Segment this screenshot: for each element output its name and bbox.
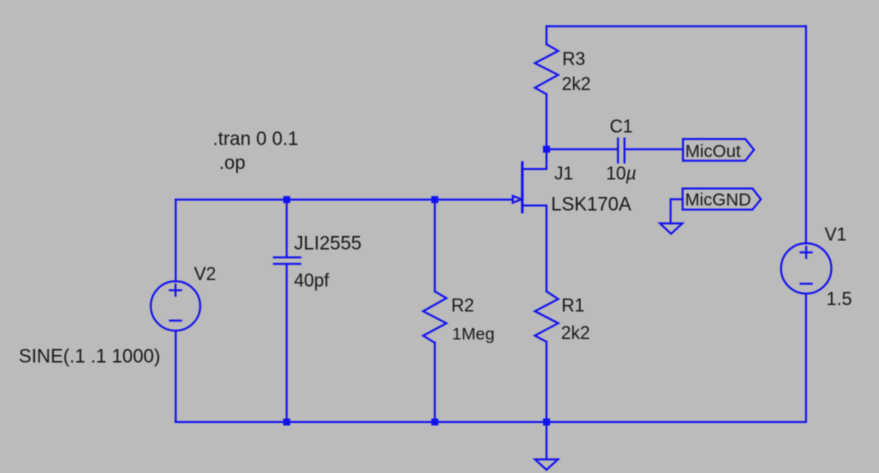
svg-text:MicGND: MicGND bbox=[685, 190, 751, 210]
svg-text:10µ: 10µ bbox=[606, 164, 636, 184]
wire V2 top lead bbox=[175, 200, 177, 282]
junction node gate-R2 bbox=[431, 196, 438, 203]
resistor R2 bbox=[423, 200, 446, 422]
junction node drain bbox=[543, 146, 550, 153]
svg-text:LSK170A: LSK170A bbox=[551, 194, 632, 215]
flag MicGND bbox=[683, 189, 761, 210]
svg-text:MicOut: MicOut bbox=[685, 141, 741, 161]
svg-text:R3: R3 bbox=[562, 49, 585, 69]
svg-text:C1: C1 bbox=[610, 116, 633, 136]
svg-text:J1: J1 bbox=[554, 163, 573, 183]
svg-text:2k2: 2k2 bbox=[561, 323, 590, 343]
junction node bottom-R2 bbox=[431, 419, 438, 426]
capacitor C1 bbox=[547, 139, 684, 163]
resistor R3 bbox=[535, 26, 558, 149]
voltage source V1 bbox=[781, 243, 831, 293]
svg-text:1Meg: 1Meg bbox=[452, 324, 495, 343]
wire MicGND to ground bbox=[671, 199, 683, 223]
junction node bottom-C2 bbox=[283, 419, 290, 426]
ground symbol MicGND bbox=[660, 223, 682, 233]
resistor R1 bbox=[535, 291, 558, 422]
voltage source V2 bbox=[151, 281, 200, 330]
svg-text:R1: R1 bbox=[562, 295, 585, 315]
junction node gate-C2 bbox=[283, 196, 290, 203]
svg-text:.op: .op bbox=[219, 153, 245, 174]
svg-text:SINE(.1 .1 1000): SINE(.1 .1 1000) bbox=[19, 347, 161, 368]
svg-text:R2: R2 bbox=[451, 296, 474, 316]
svg-text:40pf: 40pf bbox=[294, 271, 330, 291]
wire bottom rail bbox=[176, 421, 806, 423]
wire V1 bottom lead bbox=[805, 294, 807, 422]
junction node bottom-R1 bbox=[543, 419, 550, 426]
wire ground stub bottom bbox=[546, 422, 548, 459]
capacitor C2 JLI2555 bbox=[274, 200, 300, 422]
wire gate net bbox=[176, 199, 513, 201]
svg-text:V2: V2 bbox=[194, 264, 216, 284]
wire top rail bbox=[547, 25, 807, 27]
svg-text:.tran 0 0.1: .tran 0 0.1 bbox=[213, 129, 299, 150]
transistor J1 JFET bbox=[513, 149, 547, 291]
svg-text:1.5: 1.5 bbox=[826, 288, 852, 309]
flag MicOut bbox=[683, 139, 754, 161]
svg-text:2k2: 2k2 bbox=[562, 74, 591, 94]
wire V2 bottom lead bbox=[175, 331, 177, 422]
svg-text:JLI2555: JLI2555 bbox=[294, 234, 362, 255]
svg-text:V1: V1 bbox=[825, 225, 847, 245]
wire right rail upper bbox=[805, 26, 807, 243]
ground symbol main bbox=[535, 459, 558, 469]
